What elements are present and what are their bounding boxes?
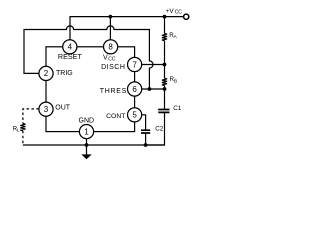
wire C2 bottom to ground rail — [145, 134, 147, 145]
junction dot C2/rail — [144, 143, 148, 147]
wire THRES pin6 to RB-C1 junction — [142, 88, 165, 90]
svg-text:V: V — [103, 54, 108, 61]
svg-text:5: 5 — [132, 111, 137, 120]
svg-text:C1: C1 — [173, 105, 182, 112]
wire DISCH junction to RB top — [164, 65, 166, 79]
pin 4 circle — [63, 40, 77, 54]
svg-text:CC: CC — [175, 10, 183, 16]
pin 8 circle — [104, 40, 118, 54]
junction dot THRES node — [163, 87, 167, 91]
svg-text:B: B — [174, 78, 177, 84]
wire rail to RA top — [164, 17, 166, 34]
svg-text:4: 4 — [68, 43, 73, 52]
IC body rectangle — [46, 47, 135, 132]
label RA — [169, 32, 177, 40]
svg-text:CC: CC — [108, 56, 116, 62]
wire OUT pin3 dashed to RL — [23, 109, 39, 124]
label RB — [170, 76, 178, 84]
svg-text:A: A — [174, 34, 178, 40]
pin 2 circle — [39, 66, 53, 80]
junction dot TRIG/THRES — [148, 87, 152, 91]
label Vcc pin8 — [103, 54, 116, 62]
svg-text:THRES: THRES — [100, 88, 127, 95]
wire CONT pin5 via C2 — [142, 115, 146, 130]
svg-text:DISCH: DISCH — [101, 64, 125, 71]
wire pin1 GND down to rail — [86, 139, 88, 145]
svg-text:C2: C2 — [155, 126, 164, 133]
junction dot RA/rail — [163, 15, 167, 19]
svg-text:GND: GND — [79, 117, 95, 124]
wire THRES junction to C1 top — [164, 89, 166, 109]
capacitor C2 — [141, 130, 150, 133]
label +Vcc — [166, 8, 183, 16]
resistor RA zigzag — [162, 33, 167, 40]
ground symbol — [86, 145, 88, 155]
pin 1 circle — [79, 125, 93, 139]
wire TRIG: pin2 left, up, across with hops, down to THRES wire — [24, 26, 153, 89]
svg-text:+V: +V — [166, 8, 175, 15]
wire RL bottom dashed to rail — [22, 131, 24, 145]
wire pin8 Vcc vertical to rail — [109, 17, 111, 40]
svg-text:CONT: CONT — [106, 113, 125, 120]
svg-text:6: 6 — [132, 85, 137, 94]
wire C1 bottom to ground rail — [146, 113, 165, 145]
wire pin4 RESET up to +Vcc rail — [70, 17, 183, 40]
label RL — [13, 126, 20, 133]
pin 6 circle — [128, 82, 142, 96]
svg-text:8: 8 — [108, 43, 113, 52]
svg-text:OUT: OUT — [55, 104, 71, 111]
+Vcc terminal circle — [184, 14, 189, 19]
junction dot pin8/rail — [109, 15, 113, 19]
pin 5 circle — [128, 108, 142, 122]
wire RA bottom to DISCH junction — [164, 41, 166, 65]
svg-text:RESET: RESET — [58, 52, 83, 61]
capacitor C1 — [158, 110, 169, 113]
junction dot DISCH node — [163, 63, 167, 67]
ground rail wire — [23, 144, 165, 146]
junction dot GND/rail — [85, 143, 89, 147]
resistor RB zigzag — [162, 78, 167, 85]
wire DISCH pin7 to RA-RB junction — [142, 64, 165, 66]
resistor RL zigzag — [20, 124, 25, 131]
wire RB bottom to THRES junction — [164, 86, 166, 90]
svg-text:2: 2 — [44, 69, 49, 78]
pin 7 circle — [128, 57, 142, 71]
svg-text:3: 3 — [44, 105, 49, 114]
svg-text:TRIG: TRIG — [56, 70, 73, 77]
svg-text:7: 7 — [132, 60, 137, 69]
svg-text:L: L — [17, 128, 20, 134]
svg-text:1: 1 — [84, 127, 89, 136]
pin 3 circle — [39, 102, 53, 116]
